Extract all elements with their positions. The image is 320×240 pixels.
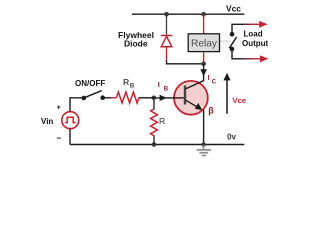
- wire: Vin to 0v rail: [69, 129, 71, 145]
- contact lower dot: [230, 47, 235, 52]
- resistor R top lead: [153, 100, 155, 109]
- node: collector junction: [201, 62, 206, 67]
- svg-text:B: B: [164, 86, 169, 92]
- wire: diode anode down: [166, 47, 168, 61]
- wire: switch to RB (black part): [103, 97, 111, 99]
- relay box: [188, 34, 219, 52]
- Vce arrow: [226, 79, 228, 114]
- transistor base bar: [184, 86, 186, 105]
- svg-text:I: I: [208, 73, 210, 82]
- wire: Vin to switch: [70, 98, 84, 112]
- svg-text:Vce: Vce: [233, 96, 247, 105]
- transistor emitter slant: [186, 100, 200, 108]
- switch left dot: [82, 96, 87, 101]
- contact upper dot: [230, 32, 235, 37]
- wire: collector lead: [203, 64, 205, 82]
- diode D1 (flywheel): [161, 36, 172, 47]
- wire: rail down to diode cathode: [166, 14, 168, 35]
- svg-text:I: I: [158, 80, 160, 89]
- arrow Ib: [160, 95, 167, 101]
- svg-text:Output: Output: [242, 39, 269, 48]
- switch right dot: [100, 95, 105, 100]
- wire: corner to collector node: [167, 61, 204, 64]
- wire: load output bottom arrow: [244, 58, 252, 60]
- svg-text:0v: 0v: [227, 133, 237, 142]
- svg-text:ON/OFF: ON/OFF: [75, 79, 105, 88]
- ground: [197, 145, 211, 156]
- transistor Q1 body: [174, 81, 208, 115]
- source pulse symbol: [65, 117, 76, 122]
- wire: switch to RB (red part): [111, 97, 117, 99]
- wire: RB to base node: [139, 97, 154, 99]
- wire: contact lower corner: [232, 49, 246, 59]
- svg-text:Relay: Relay: [191, 39, 218, 50]
- wire: rail down to relay: [203, 14, 205, 33]
- resistor R zigzag: [151, 109, 158, 136]
- dashed link relay to contacts: [221, 40, 230, 42]
- svg-text:Vin: Vin: [41, 117, 53, 126]
- switch blade (load contacts): [229, 37, 236, 48]
- transistor base lead (inside): [174, 97, 184, 99]
- transistor emitter arrowhead: [195, 103, 203, 110]
- transistor collector slant: [186, 81, 203, 89]
- 0v rail: [70, 144, 244, 146]
- wire: load output top arrow: [244, 23, 252, 25]
- node: diode-rail junction: [164, 12, 169, 17]
- source Vin circle: [62, 112, 79, 129]
- wire: relay to collector node: [203, 52, 205, 64]
- svg-text:β: β: [208, 106, 214, 116]
- Vcc rail: [132, 13, 244, 15]
- svg-text:Load: Load: [244, 30, 263, 39]
- svg-text:R: R: [159, 116, 165, 126]
- node: emitter-rail junction: [201, 142, 206, 147]
- resistor RB zigzag: [117, 92, 140, 103]
- svg-text:+: +: [57, 103, 62, 112]
- wire: contact upper corner: [232, 24, 246, 34]
- svg-text:Vcc: Vcc: [226, 3, 241, 13]
- switch blade ON/OFF: [84, 91, 102, 98]
- wire: base node to transistor: [154, 97, 174, 99]
- resistor R bottom lead: [153, 136, 155, 145]
- node: relay-rail junction: [201, 12, 206, 17]
- wire: emitter lead: [203, 110, 205, 145]
- node: R-rail junction: [152, 142, 157, 147]
- svg-text:−: −: [57, 133, 62, 143]
- svg-text:Diode: Diode: [124, 39, 148, 49]
- arrow Ic: [200, 69, 207, 76]
- node: base junction: [152, 96, 157, 101]
- svg-text:B: B: [130, 83, 135, 90]
- svg-text:C: C: [212, 79, 217, 85]
